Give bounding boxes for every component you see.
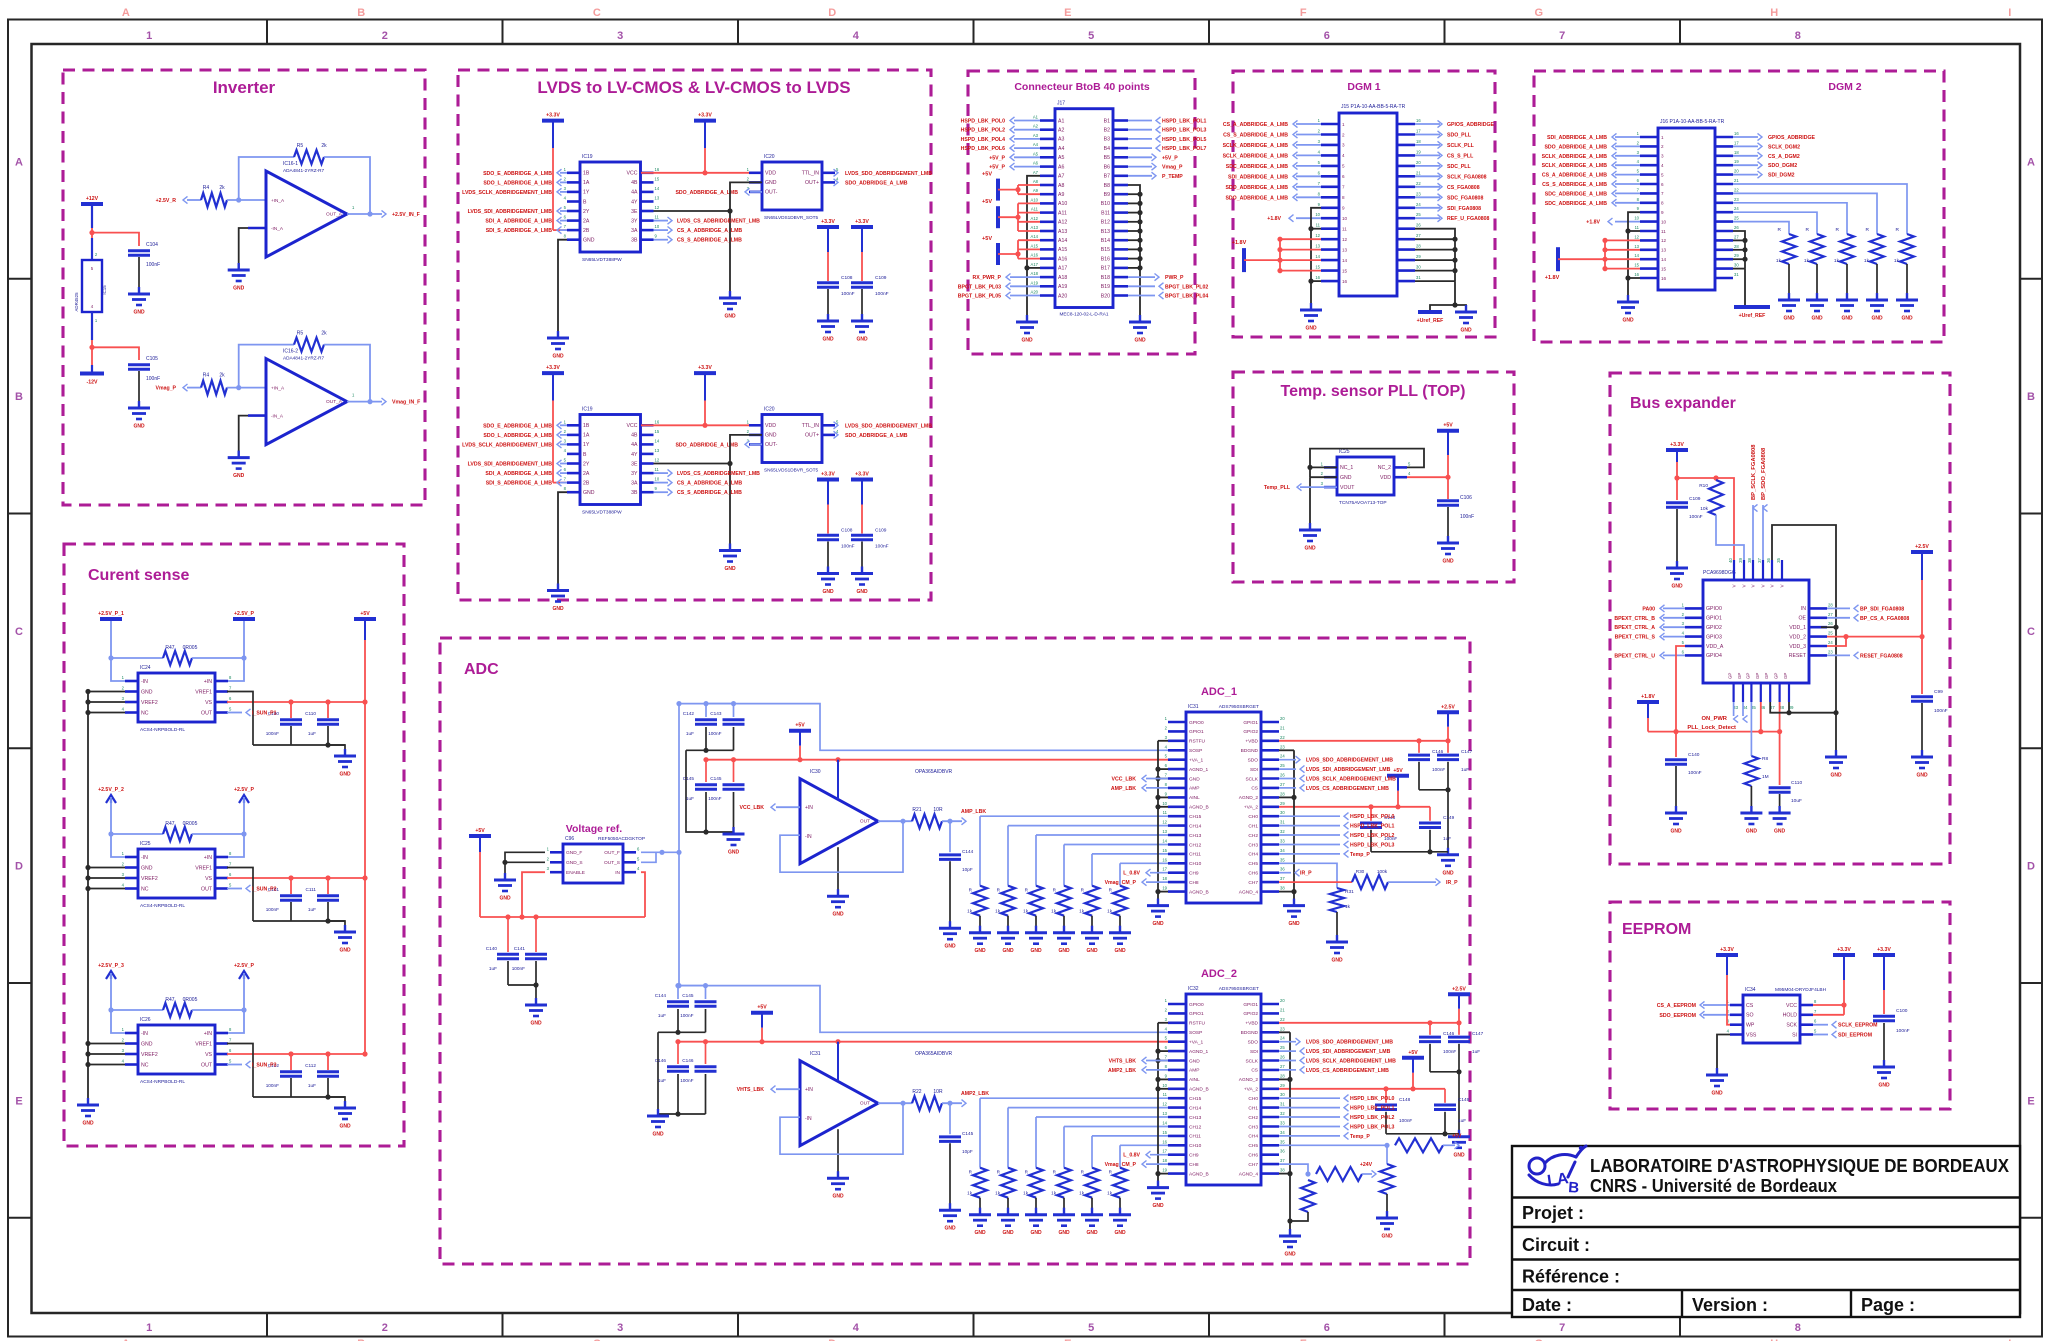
svg-text:24: 24 — [1734, 206, 1739, 211]
svg-text:1k: 1k — [1864, 258, 1870, 264]
svg-text:5: 5 — [1088, 30, 1094, 42]
svg-text:PA00: PA00 — [1642, 606, 1655, 612]
svg-text:C140: C140 — [1688, 752, 1700, 758]
svg-text:LVDS_SDI_ADBRIDGEMENT_LMB: LVDS_SDI_ADBRIDGEMENT_LMB — [1306, 1049, 1391, 1055]
svg-text:B: B — [357, 7, 365, 19]
svg-text:31: 31 — [1734, 272, 1739, 277]
svg-text:30: 30 — [1280, 1092, 1285, 1097]
svg-text:LVDS_SDI_ADBRIDGEMENT_LMB: LVDS_SDI_ADBRIDGEMENT_LMB — [1306, 767, 1391, 773]
svg-text:14: 14 — [655, 186, 660, 191]
svg-text:B1: B1 — [1104, 118, 1110, 124]
svg-text:R: R — [1836, 227, 1840, 233]
svg-text:AMP2_LBK: AMP2_LBK — [961, 1091, 989, 1097]
svg-text:Temp_P: Temp_P — [1350, 1134, 1370, 1140]
svg-text:-IN_A: -IN_A — [271, 414, 284, 419]
svg-text:GPIO2: GPIO2 — [1706, 625, 1722, 631]
svg-text:GND: GND — [1002, 1230, 1014, 1236]
svg-text:GND: GND — [1830, 773, 1842, 779]
svg-text:GND: GND — [1189, 776, 1200, 782]
svg-text:CH12: CH12 — [1189, 842, 1202, 848]
svg-text:A14: A14 — [1031, 234, 1039, 239]
svg-text:OUT_F: OUT_F — [604, 850, 620, 856]
svg-text:19: 19 — [1734, 159, 1739, 164]
svg-text:2A: 2A — [583, 471, 590, 477]
svg-text:GPIO1: GPIO1 — [1706, 616, 1722, 622]
svg-text:1k: 1k — [1804, 258, 1810, 264]
svg-text:SDC_ADBRIDGE_A_LMB: SDC_ADBRIDGE_A_LMB — [1545, 191, 1608, 197]
svg-text:1k: 1k — [1051, 1191, 1057, 1196]
svg-text:B10: B10 — [1101, 201, 1110, 207]
svg-text:LVDS_SDI_ADBRIDGEMENT_LMB: LVDS_SDI_ADBRIDGEMENT_LMB — [468, 209, 553, 215]
svg-text:100nF: 100nF — [146, 262, 160, 268]
svg-text:25: 25 — [1280, 1045, 1285, 1050]
svg-text:1uF: 1uF — [1461, 767, 1469, 772]
svg-text:HSPD_LBK_POL6: HSPD_LBK_POL6 — [961, 146, 1006, 152]
svg-text:RSTFU: RSTFU — [1189, 739, 1206, 745]
svg-text:GND: GND — [339, 948, 351, 954]
svg-text:+3.3V: +3.3V — [698, 365, 712, 371]
svg-text:R5: R5 — [297, 331, 304, 337]
svg-text:1: 1 — [146, 30, 152, 42]
svg-text:GND: GND — [339, 772, 351, 778]
svg-text:1uF: 1uF — [308, 1083, 316, 1088]
svg-text:A11: A11 — [1031, 207, 1039, 212]
svg-text:28: 28 — [1280, 791, 1285, 796]
svg-text:HSPD_LBK_POL0: HSPD_LBK_POL0 — [961, 119, 1006, 125]
svg-text:E: E — [1064, 7, 1071, 19]
svg-text:F: F — [1300, 7, 1307, 19]
svg-text:C100: C100 — [1896, 1008, 1908, 1014]
svg-text:C99: C99 — [1934, 689, 1943, 695]
svg-text:CH0: CH0 — [1248, 814, 1258, 820]
svg-text:HSPD_LBK_POL5: HSPD_LBK_POL5 — [1162, 137, 1207, 143]
svg-text:SCLK_ADBRIDGE_A_LMB: SCLK_ADBRIDGE_A_LMB — [1223, 153, 1289, 159]
svg-text:RESET_FGA0808: RESET_FGA0808 — [1860, 653, 1903, 659]
svg-text:+3.3V: +3.3V — [1720, 947, 1734, 953]
svg-text:1k: 1k — [1079, 1191, 1085, 1196]
svg-text:CH1: CH1 — [1248, 1105, 1258, 1111]
svg-text:15: 15 — [1342, 268, 1348, 273]
svg-text:A16: A16 — [1031, 253, 1039, 258]
svg-text:GND: GND — [765, 180, 777, 186]
svg-text:+1.8V: +1.8V — [1232, 240, 1247, 246]
svg-text:BPEXT_CTRL_A: BPEXT_CTRL_A — [1614, 625, 1655, 631]
svg-text:1: 1 — [1661, 135, 1664, 140]
svg-text:R47: R47 — [165, 821, 174, 827]
svg-text:GND: GND — [832, 1194, 844, 1200]
svg-text:R: R — [1866, 227, 1870, 233]
svg-text:A5: A5 — [1033, 151, 1039, 156]
svg-text:C112: C112 — [305, 1063, 316, 1068]
svg-text:13: 13 — [1315, 244, 1320, 249]
svg-text:VHTS_LBK: VHTS_LBK — [1109, 1059, 1137, 1065]
svg-text:ADR4525: ADR4525 — [74, 292, 79, 312]
svg-text:B14: B14 — [1101, 238, 1110, 244]
svg-text:+IN_A: +IN_A — [271, 386, 285, 391]
svg-text:AGND_B: AGND_B — [1189, 805, 1209, 811]
svg-text:100nF: 100nF — [875, 544, 889, 550]
svg-text:IC30: IC30 — [810, 769, 821, 775]
svg-text:CS_S_ADBRIDGE_A_LMB: CS_S_ADBRIDGE_A_LMB — [1223, 133, 1288, 139]
svg-text:13: 13 — [1342, 247, 1348, 252]
svg-text:A6: A6 — [1033, 161, 1039, 166]
svg-text:B: B — [15, 391, 23, 403]
svg-text:GND: GND — [724, 566, 736, 572]
svg-text:3E: 3E — [631, 461, 638, 467]
svg-text:CS: CS — [1746, 1003, 1754, 1009]
svg-text:25: 25 — [1280, 763, 1285, 768]
svg-text:SDI_ADBRIDGE_A_LMB: SDI_ADBRIDGE_A_LMB — [1547, 135, 1607, 141]
svg-text:3B: 3B — [631, 238, 638, 244]
svg-text:12: 12 — [1162, 1102, 1167, 1107]
svg-text:25: 25 — [1828, 631, 1833, 636]
svg-text:IC31: IC31 — [810, 1051, 821, 1057]
svg-text:IC16-2: IC16-2 — [283, 349, 298, 355]
svg-text:VSS: VSS — [1746, 1032, 1757, 1038]
svg-text:GND: GND — [1711, 1091, 1723, 1097]
svg-text:18: 18 — [1162, 876, 1167, 881]
svg-text:GND: GND — [1460, 328, 1472, 334]
svg-text:A9: A9 — [1033, 188, 1039, 193]
svg-text:BPEXT_CTRL_S: BPEXT_CTRL_S — [1615, 635, 1656, 641]
svg-text:2: 2 — [382, 1322, 388, 1334]
svg-text:9: 9 — [1342, 206, 1345, 211]
svg-text:A6: A6 — [1058, 164, 1064, 170]
svg-text:A18: A18 — [1058, 275, 1067, 281]
svg-text:Vmag_P: Vmag_P — [156, 386, 177, 392]
svg-text:I_SUN_P2: I_SUN_P2 — [252, 887, 277, 893]
svg-text:C145: C145 — [962, 1131, 974, 1136]
svg-text:34: 34 — [1280, 848, 1285, 853]
svg-text:7: 7 — [1559, 30, 1565, 42]
svg-text:LVDS_CS_ADBRIDGEMENT_LMB: LVDS_CS_ADBRIDGEMENT_LMB — [677, 219, 760, 225]
svg-text:40: 40 — [1728, 557, 1733, 562]
svg-text:IR_P: IR_P — [1300, 871, 1312, 877]
svg-text:15: 15 — [1661, 266, 1667, 271]
svg-text:11: 11 — [1635, 225, 1640, 230]
svg-text:B9: B9 — [1104, 192, 1110, 198]
svg-text:IN: IN — [1801, 606, 1806, 612]
svg-text:GP: GP — [1783, 673, 1788, 679]
svg-text:C143: C143 — [710, 711, 722, 716]
svg-text:38: 38 — [1747, 557, 1752, 562]
svg-text:GND: GND — [1305, 326, 1317, 332]
svg-text:21: 21 — [1416, 170, 1421, 175]
svg-text:GND: GND — [724, 314, 736, 320]
svg-text:1uF: 1uF — [658, 1013, 666, 1018]
svg-text:SI: SI — [1792, 1032, 1797, 1038]
svg-text:D: D — [2027, 861, 2035, 873]
svg-text:CH7: CH7 — [1248, 880, 1258, 886]
svg-text:10: 10 — [1661, 219, 1667, 224]
svg-text:4: 4 — [1661, 163, 1664, 168]
svg-text:A2: A2 — [1058, 128, 1064, 134]
svg-text:R: R — [1778, 227, 1782, 233]
svg-text:A7: A7 — [1058, 174, 1064, 180]
svg-text:OUT_S: OUT_S — [604, 860, 620, 866]
svg-text:32: 32 — [1280, 1111, 1285, 1116]
svg-text:7: 7 — [1342, 185, 1345, 190]
svg-text:1k: 1k — [1776, 258, 1782, 264]
svg-text:AINL: AINL — [1189, 1077, 1200, 1083]
svg-text:2k: 2k — [219, 373, 225, 379]
svg-text:19: 19 — [1416, 149, 1421, 154]
svg-text:2Y: 2Y — [583, 209, 590, 215]
svg-text:4B: 4B — [631, 180, 638, 186]
svg-text:+IN: +IN — [204, 1031, 212, 1037]
svg-text:15: 15 — [1315, 265, 1320, 270]
svg-text:27: 27 — [1828, 612, 1833, 617]
svg-text:SDO_EEPROM: SDO_EEPROM — [1659, 1013, 1696, 1019]
svg-text:HSPD_LBK_POL7: HSPD_LBK_POL7 — [1162, 146, 1207, 152]
svg-text:1k: 1k — [1079, 909, 1085, 914]
svg-text:24: 24 — [1280, 1036, 1285, 1041]
svg-text:5: 5 — [1661, 172, 1664, 177]
svg-text:3A: 3A — [631, 228, 638, 234]
svg-text:100k: 100k — [1377, 869, 1388, 874]
svg-text:C145: C145 — [683, 776, 695, 781]
svg-text:A13: A13 — [1058, 229, 1067, 235]
svg-text:LVDS_SDO_ADBRIDGEMENT_LMB: LVDS_SDO_ADBRIDGEMENT_LMB — [1306, 758, 1393, 764]
svg-text:GP: GP — [1728, 673, 1733, 679]
svg-text:14: 14 — [1342, 258, 1348, 263]
svg-text:15: 15 — [655, 176, 660, 181]
svg-text:-IN: -IN — [805, 834, 812, 840]
svg-text:VREF1: VREF1 — [195, 689, 212, 695]
svg-text:17: 17 — [1162, 867, 1167, 872]
svg-text:GPIO0: GPIO0 — [1189, 1002, 1204, 1008]
svg-text:GND: GND — [1086, 948, 1098, 954]
svg-text:100nF: 100nF — [680, 1078, 693, 1083]
svg-text:GPIO3: GPIO3 — [1706, 634, 1722, 640]
svg-text:GND: GND — [974, 948, 986, 954]
svg-text:12: 12 — [1634, 234, 1639, 239]
svg-text:R30: R30 — [1356, 869, 1365, 874]
svg-text:0R005: 0R005 — [183, 821, 198, 827]
svg-text:CS: CS — [1251, 786, 1258, 792]
svg-text:24: 24 — [1828, 640, 1833, 645]
svg-text:SDI: SDI — [1250, 1049, 1258, 1055]
svg-text:IC34: IC34 — [1745, 987, 1756, 993]
svg-text:100nF: 100nF — [266, 907, 279, 912]
svg-text:SN65LVDS1DBVR_SOT5: SN65LVDS1DBVR_SOT5 — [764, 468, 818, 473]
svg-text:2: 2 — [1661, 144, 1664, 149]
svg-text:10uF: 10uF — [1791, 798, 1802, 804]
svg-text:C140: C140 — [486, 946, 498, 951]
svg-text:100nF: 100nF — [680, 1013, 693, 1018]
svg-text:SDI_A_ADBRIDGE_A_LMB: SDI_A_ADBRIDGE_A_LMB — [485, 471, 552, 477]
svg-text:4Y: 4Y — [631, 452, 638, 458]
svg-text:ACS4-NRPBOLD-RL: ACS4-NRPBOLD-RL — [140, 1079, 185, 1085]
svg-text:1uF: 1uF — [1458, 1118, 1466, 1123]
svg-text:A18: A18 — [1031, 271, 1039, 276]
svg-text:13: 13 — [1162, 1111, 1167, 1116]
svg-text:9: 9 — [1661, 210, 1664, 215]
svg-text:30: 30 — [1280, 810, 1285, 815]
svg-text:SDC_ADBRIDGE_A_LMB: SDC_ADBRIDGE_A_LMB — [1545, 201, 1608, 207]
svg-text:GND: GND — [141, 1041, 153, 1047]
svg-text:LVDS_SCLK_ADBRIDGEMENT_LMB: LVDS_SCLK_ADBRIDGEMENT_LMB — [462, 190, 552, 196]
svg-text:SDI: SDI — [1250, 767, 1258, 773]
svg-text:IR_P: IR_P — [1446, 880, 1458, 886]
svg-text:A20: A20 — [1031, 290, 1039, 295]
svg-text:100nF: 100nF — [841, 544, 855, 550]
svg-text:GND: GND — [1670, 829, 1682, 835]
svg-text:ON_PWR: ON_PWR — [1702, 716, 1728, 722]
svg-text:B: B — [583, 199, 587, 205]
svg-text:8: 8 — [1661, 201, 1664, 206]
svg-text:C144: C144 — [655, 993, 667, 998]
svg-text:1: 1 — [146, 1322, 152, 1334]
svg-text:15: 15 — [1634, 263, 1639, 268]
svg-text:C146: C146 — [1443, 1031, 1455, 1036]
svg-text:Vmag_P: Vmag_P — [1162, 165, 1183, 171]
svg-text:-IN: -IN — [141, 1031, 148, 1037]
svg-text:+5V_P: +5V_P — [989, 155, 1005, 161]
svg-text:100nF: 100nF — [1432, 767, 1445, 772]
svg-text:+5V: +5V — [795, 723, 805, 729]
svg-text:NC: NC — [141, 1062, 149, 1068]
svg-text:GPIOS_ADBRIDGE: GPIOS_ADBRIDGE — [1768, 135, 1816, 141]
svg-text:A20: A20 — [1058, 293, 1067, 299]
svg-text:E: E — [2027, 1095, 2034, 1107]
svg-text:Curent sense: Curent sense — [88, 567, 189, 584]
svg-text:A15: A15 — [1058, 247, 1067, 253]
svg-text:33: 33 — [1280, 1121, 1285, 1126]
svg-text:16: 16 — [1634, 272, 1639, 277]
svg-text:100nF: 100nF — [1460, 514, 1474, 520]
svg-text:1B: 1B — [583, 423, 590, 429]
svg-text:+Uref_REF: +Uref_REF — [1739, 313, 1766, 319]
svg-text:28: 28 — [1828, 602, 1833, 607]
svg-text:38: 38 — [1280, 1168, 1285, 1173]
svg-text:Inverter: Inverter — [213, 78, 276, 97]
svg-text:-IN: -IN — [805, 1116, 812, 1122]
svg-text:GP: GP — [1774, 673, 1779, 679]
svg-text:1A: 1A — [583, 180, 590, 186]
svg-text:100nF: 100nF — [1689, 514, 1703, 520]
svg-text:CH8: CH8 — [1189, 1162, 1199, 1168]
svg-text:VCC: VCC — [627, 171, 638, 177]
svg-text:B18: B18 — [1101, 275, 1110, 281]
svg-text:16: 16 — [655, 419, 660, 424]
svg-text:C146: C146 — [655, 1058, 667, 1063]
svg-text:CH11: CH11 — [1189, 852, 1201, 858]
svg-text:CH3: CH3 — [1248, 1124, 1258, 1130]
svg-text:IC20: IC20 — [764, 154, 775, 160]
svg-text:BP_CS_A_FGA0808: BP_CS_A_FGA0808 — [1860, 616, 1909, 622]
svg-text:1k: 1k — [1345, 904, 1351, 910]
svg-text:30: 30 — [1416, 265, 1421, 270]
svg-text:GPIO1: GPIO1 — [1189, 1011, 1204, 1017]
svg-text:GND: GND — [856, 589, 868, 595]
svg-text:AGND_B: AGND_B — [1189, 889, 1209, 895]
svg-text:GND: GND — [1114, 948, 1126, 954]
svg-text:28: 28 — [1734, 244, 1739, 249]
svg-text:VREF1: VREF1 — [195, 865, 212, 871]
svg-text:GND: GND — [1086, 1230, 1098, 1236]
svg-text:AGND_4: AGND_4 — [1239, 1171, 1259, 1177]
svg-text:13: 13 — [1634, 244, 1639, 249]
svg-text:R: R — [1806, 227, 1810, 233]
svg-text:GND: GND — [233, 473, 245, 479]
svg-text:GND: GND — [856, 337, 868, 343]
svg-text:GND: GND — [1381, 1234, 1393, 1240]
svg-text:SDO_ADBRIDGE_A_LMB: SDO_ADBRIDGE_A_LMB — [1225, 195, 1288, 201]
svg-text:J15 P1A-10-AA-BB-5-RA-TR: J15 P1A-10-AA-BB-5-RA-TR — [1341, 104, 1406, 110]
svg-text:CH6: CH6 — [1248, 871, 1258, 877]
svg-text:17: 17 — [1734, 140, 1739, 145]
svg-text:A2: A2 — [1033, 124, 1039, 129]
svg-text:+2.5V_P: +2.5V_P — [234, 611, 255, 617]
svg-text:CH15: CH15 — [1189, 1096, 1202, 1102]
svg-text:VCC: VCC — [627, 423, 638, 429]
svg-text:SDC_FGA0808: SDC_FGA0808 — [1447, 195, 1483, 201]
svg-text:AGND_1: AGND_1 — [1189, 767, 1209, 773]
svg-text:BPGT_LBK_PL02: BPGT_LBK_PL02 — [1165, 284, 1208, 290]
svg-text:38: 38 — [1280, 886, 1285, 891]
svg-text:GND: GND — [1114, 1230, 1126, 1236]
svg-text:8: 8 — [1795, 30, 1801, 42]
svg-text:A3: A3 — [1058, 137, 1064, 143]
svg-text:+2.5V_P: +2.5V_P — [234, 787, 255, 793]
svg-text:2A: 2A — [583, 218, 590, 224]
svg-text:+5V: +5V — [360, 611, 370, 617]
svg-text:100nF: 100nF — [1934, 708, 1948, 714]
svg-text:100nF: 100nF — [708, 796, 721, 801]
svg-text:SDO_ADBRIDGE_A_LMB: SDO_ADBRIDGE_A_LMB — [845, 433, 908, 439]
svg-text:HSPD_LBK_POL0: HSPD_LBK_POL0 — [1350, 814, 1395, 820]
svg-text:AGND_2: AGND_2 — [1239, 1077, 1259, 1083]
svg-text:3: 3 — [617, 1322, 623, 1334]
svg-text:1uF: 1uF — [686, 796, 694, 801]
svg-text:VREF2: VREF2 — [141, 700, 158, 706]
svg-text:OUT: OUT — [860, 819, 870, 825]
svg-text:GND: GND — [1671, 584, 1683, 590]
svg-text:GND: GND — [822, 337, 834, 343]
svg-text:11: 11 — [1342, 227, 1347, 232]
svg-text:B12: B12 — [1101, 220, 1110, 226]
svg-text:35: 35 — [1280, 1139, 1285, 1144]
svg-text:3: 3 — [617, 30, 623, 42]
svg-text:GPIO2: GPIO2 — [1243, 1011, 1258, 1017]
svg-text:14: 14 — [1661, 257, 1667, 262]
svg-text:22: 22 — [1280, 1017, 1285, 1022]
svg-text:IC15: IC15 — [102, 285, 107, 295]
svg-text:5: 5 — [1342, 164, 1345, 169]
svg-text:10: 10 — [655, 224, 660, 229]
svg-text:+2.5V: +2.5V — [1441, 704, 1455, 710]
svg-text:SCLK_PLL: SCLK_PLL — [1447, 143, 1475, 149]
svg-text:GND: GND — [1442, 559, 1454, 565]
svg-text:11: 11 — [1163, 1092, 1168, 1097]
svg-text:19: 19 — [1162, 886, 1167, 891]
svg-text:R5: R5 — [297, 143, 304, 149]
svg-text:OPA365AIDBVR: OPA365AIDBVR — [915, 1051, 953, 1057]
svg-text:BP_SDO_FGA0808: BP_SDO_FGA0808 — [1761, 447, 1767, 500]
svg-text:1uF: 1uF — [489, 966, 497, 971]
svg-text:1k: 1k — [995, 909, 1001, 914]
svg-text:A16: A16 — [1058, 256, 1067, 262]
svg-text:+Uref_REF: +Uref_REF — [1417, 318, 1444, 324]
svg-text:GND: GND — [1030, 948, 1042, 954]
svg-text:SDO_ADBRIDGE_A_LMB: SDO_ADBRIDGE_A_LMB — [675, 442, 738, 448]
svg-text:SN65LVDS1DBVR_SOT5: SN65LVDS1DBVR_SOT5 — [764, 215, 818, 220]
svg-text:+2.5V: +2.5V — [1452, 986, 1466, 992]
svg-text:SDO_PLL: SDO_PLL — [1447, 133, 1472, 139]
svg-text:CH5: CH5 — [1248, 1143, 1258, 1149]
svg-text:20: 20 — [1280, 998, 1285, 1003]
